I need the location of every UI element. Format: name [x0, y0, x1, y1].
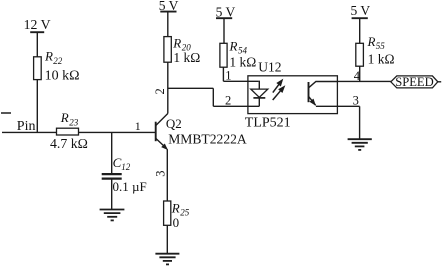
- svg-text:55: 55: [376, 41, 386, 51]
- edge mark: [1, 112, 11, 114]
- wire junction to C12: [111, 132, 113, 173]
- svg-text:R: R: [229, 38, 238, 53]
- ground below pin3: [348, 139, 372, 150]
- resistor R23: [50, 110, 88, 151]
- svg-text:25: 25: [180, 208, 190, 218]
- LED inside opto: [251, 81, 268, 106]
- wire pin3 down to ground: [359, 106, 361, 139]
- wire Pin net horizontal: [2, 131, 155, 133]
- svg-text:1: 1: [225, 69, 231, 83]
- SPEED output flag: [391, 75, 441, 89]
- svg-text:23: 23: [69, 117, 79, 127]
- svg-text:12: 12: [121, 162, 131, 172]
- svg-text:4: 4: [354, 69, 361, 83]
- resistor R22: [34, 49, 80, 84]
- wire R25 to ground: [166, 225, 168, 253]
- svg-text:1 kΩ: 1 kΩ: [229, 54, 256, 69]
- power 12V: [24, 17, 51, 32]
- svg-text:U12: U12: [258, 59, 281, 74]
- resistor R25: [164, 200, 190, 230]
- svg-text:R: R: [44, 49, 53, 64]
- resistor R55: [356, 34, 395, 67]
- wire R22 to Pin net: [36, 80, 38, 133]
- wire pin4 to SPEED: [337, 80, 391, 82]
- svg-text:12 V: 12 V: [24, 17, 51, 32]
- svg-text:2: 2: [225, 93, 231, 107]
- svg-text:5 V: 5 V: [351, 3, 371, 18]
- wire to opto pin1: [223, 80, 258, 82]
- transistor Q2: [156, 114, 247, 150]
- wire collector branch right: [168, 87, 214, 89]
- svg-text:4.7 kΩ: 4.7 kΩ: [50, 136, 88, 151]
- svg-text:R: R: [172, 35, 181, 50]
- wire 5V to R54: [223, 18, 225, 43]
- wire C12 to ground: [111, 179, 113, 209]
- capacitor C12: [102, 155, 147, 194]
- svg-text:3: 3: [353, 93, 359, 107]
- power 5V second: [216, 5, 236, 20]
- resistor R20: [164, 35, 200, 65]
- wire 12V to R22: [36, 32, 38, 57]
- svg-text:3: 3: [153, 171, 167, 177]
- ground below R25: [155, 254, 179, 265]
- wire step down: [212, 88, 214, 106]
- svg-text:TLP521: TLP521: [245, 116, 291, 131]
- wire R55 to pin4 net: [359, 66, 361, 81]
- wire to opto pin2: [213, 105, 259, 107]
- svg-text:1 kΩ: 1 kΩ: [368, 51, 395, 66]
- wire 5V to R55: [359, 18, 361, 43]
- resistor R54: [220, 38, 256, 69]
- svg-text:10 kΩ: 10 kΩ: [45, 69, 80, 84]
- svg-text:0.1 µF: 0.1 µF: [113, 179, 147, 194]
- wire pin3 right: [337, 105, 359, 107]
- svg-text:2: 2: [153, 88, 167, 94]
- svg-text:1 kΩ: 1 kΩ: [173, 50, 200, 65]
- svg-text:R: R: [60, 110, 69, 125]
- ground below C12: [100, 210, 125, 221]
- svg-text:SPEED: SPEED: [395, 75, 434, 89]
- wire emitter to R25: [166, 149, 168, 201]
- power 5V third: [351, 3, 371, 18]
- wire R20 to collector: [167, 62, 169, 113]
- phototransistor inside opto: [309, 82, 338, 107]
- wire R54 down: [222, 67, 224, 81]
- svg-text:R: R: [367, 34, 376, 49]
- svg-text:Q2: Q2: [166, 116, 182, 131]
- wire 5V to R20: [167, 12, 169, 37]
- svg-text:1: 1: [135, 119, 141, 133]
- svg-text:0: 0: [173, 215, 180, 230]
- LED light arrows: [273, 80, 285, 100]
- power 5V first: [159, 0, 179, 13]
- optocoupler U12 box: [245, 59, 338, 130]
- svg-text:Pin: Pin: [17, 119, 36, 134]
- svg-text:MMBT2222A: MMBT2222A: [168, 132, 247, 147]
- svg-text:22: 22: [53, 56, 63, 66]
- svg-text:R: R: [171, 200, 180, 215]
